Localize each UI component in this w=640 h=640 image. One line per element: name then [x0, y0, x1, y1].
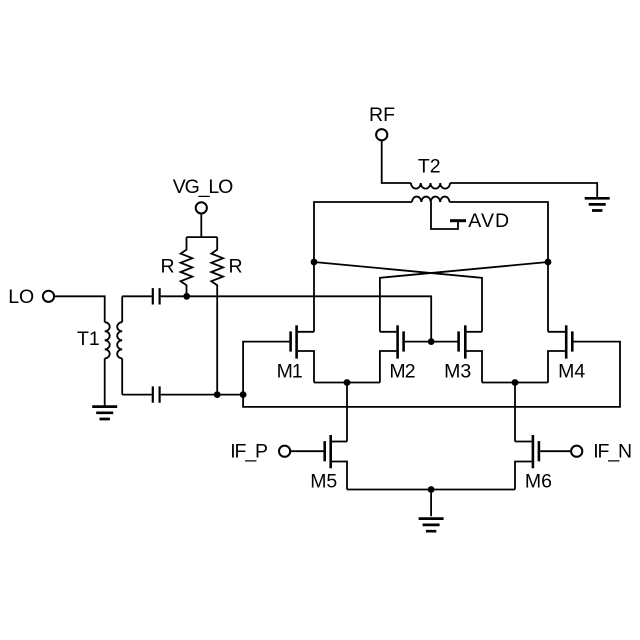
svg-text:M6: M6	[525, 470, 552, 492]
svg-text:M1: M1	[277, 361, 302, 383]
svg-text:M4: M4	[558, 361, 585, 383]
svg-text:M5: M5	[310, 470, 337, 492]
svg-text:IF_P: IF_P	[230, 440, 267, 462]
svg-text:T2: T2	[418, 156, 441, 178]
svg-text:LO: LO	[8, 286, 34, 308]
svg-text:R: R	[229, 256, 243, 278]
svg-text:M2: M2	[389, 361, 414, 383]
svg-text:RF: RF	[369, 104, 395, 126]
svg-text:IF_N: IF_N	[593, 440, 631, 462]
svg-text:M3: M3	[444, 361, 471, 383]
svg-text:T1: T1	[77, 328, 100, 350]
svg-text:VG_LO: VG_LO	[173, 176, 233, 198]
svg-text:R: R	[161, 256, 175, 278]
svg-text:AVD: AVD	[468, 210, 510, 232]
